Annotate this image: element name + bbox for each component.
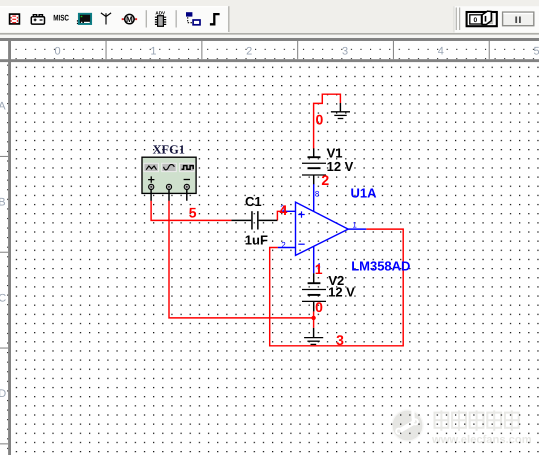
toolbar icon: IC chip	[155, 10, 166, 26]
svg-text:U1A: U1A	[351, 185, 378, 200]
toolbar background	[0, 0, 539, 35]
battery V1	[302, 148, 326, 184]
toolbar gripper lines	[456, 8, 457, 31]
svg-text:0: 0	[315, 299, 323, 315]
XFG1 pin stubs	[151, 190, 187, 201]
capacitor C1	[231, 211, 277, 229]
op-amp power pin 8 lead	[313, 184, 315, 211]
toolbar separator	[146, 10, 147, 27]
ground bottom	[304, 328, 323, 345]
toolbar icon: battery/power	[31, 15, 44, 24]
op-amp + input mark	[298, 211, 304, 217]
battery V2	[302, 273, 326, 311]
watermark logo elecfans	[392, 404, 423, 442]
svg-text:5: 5	[534, 45, 539, 57]
svg-text:2: 2	[246, 45, 252, 57]
svg-text:12 V: 12 V	[328, 285, 355, 300]
svg-text:C: C	[0, 292, 6, 304]
svg-text:LM358AD: LM358AD	[351, 258, 410, 273]
toolbar icon: motor	[122, 14, 137, 24]
run switch button	[467, 11, 497, 26]
svg-text:3: 3	[342, 45, 348, 57]
svg-text:1: 1	[150, 45, 156, 57]
svg-text:C1: C1	[245, 194, 262, 209]
toolbar icon: bus	[210, 14, 220, 24]
svg-text:5: 5	[189, 204, 197, 220]
toolbar icon: monitor/advanced	[77, 14, 91, 24]
svg-text:2: 2	[281, 241, 286, 250]
svg-text:8: 8	[315, 189, 320, 198]
toolbar separator	[176, 10, 177, 27]
function generator XFG1	[142, 157, 196, 193]
op-amp input/output pin stubs	[278, 211, 366, 247]
op-amp power pin 4 lead	[313, 247, 315, 274]
wire node0: junction down toward bottom ground	[313, 311, 315, 328]
wire node5: XFG1 + terminal down and right to C1	[151, 201, 231, 221]
toolbar icon: seven segment display	[10, 14, 20, 24]
svg-text:MISC: MISC	[53, 14, 69, 23]
toolbar icon: hierarchy block	[186, 12, 200, 25]
svg-text:XFG1: XFG1	[153, 142, 185, 156]
wire node4: C1 right corner up to op-amp + input	[277, 211, 282, 220]
svg-text:3: 3	[336, 332, 344, 348]
wire node0: XFG1 COM terminal down and right to V2/ground junction	[169, 201, 313, 318]
op-amp U1A triangle	[296, 202, 349, 255]
ground top	[331, 103, 350, 119]
watermark chinese text	[435, 411, 520, 431]
svg-text:0: 0	[316, 112, 324, 128]
svg-text:1uF: 1uF	[245, 233, 268, 248]
svg-text:D: D	[0, 388, 6, 400]
wire node3: feedback op-amp output to inverting input	[270, 229, 404, 346]
svg-text:4: 4	[438, 45, 444, 57]
svg-text:0: 0	[473, 17, 477, 24]
horizontal ruler	[0, 41, 539, 59]
ruler border lines	[0, 59, 539, 62]
svg-text:0: 0	[55, 45, 61, 57]
svg-text:B: B	[0, 196, 6, 208]
svg-text:12 V: 12 V	[327, 159, 354, 174]
toolbar icon: antenna/RF	[101, 13, 111, 25]
svg-text:A: A	[0, 101, 6, 113]
pause button	[503, 12, 534, 26]
svg-text:2: 2	[321, 172, 329, 188]
svg-text:M: M	[126, 15, 133, 24]
svg-text:ADV: ADV	[155, 10, 166, 15]
svg-text:1: 1	[352, 220, 357, 229]
wire node0: V1 top to ground (stepped)	[314, 94, 341, 148]
svg-text:1: 1	[315, 261, 323, 277]
vertical ruler	[0, 59, 8, 455]
junction dot node 0	[311, 316, 315, 320]
svg-text:4: 4	[280, 202, 288, 218]
op-amp - input mark	[298, 243, 304, 245]
